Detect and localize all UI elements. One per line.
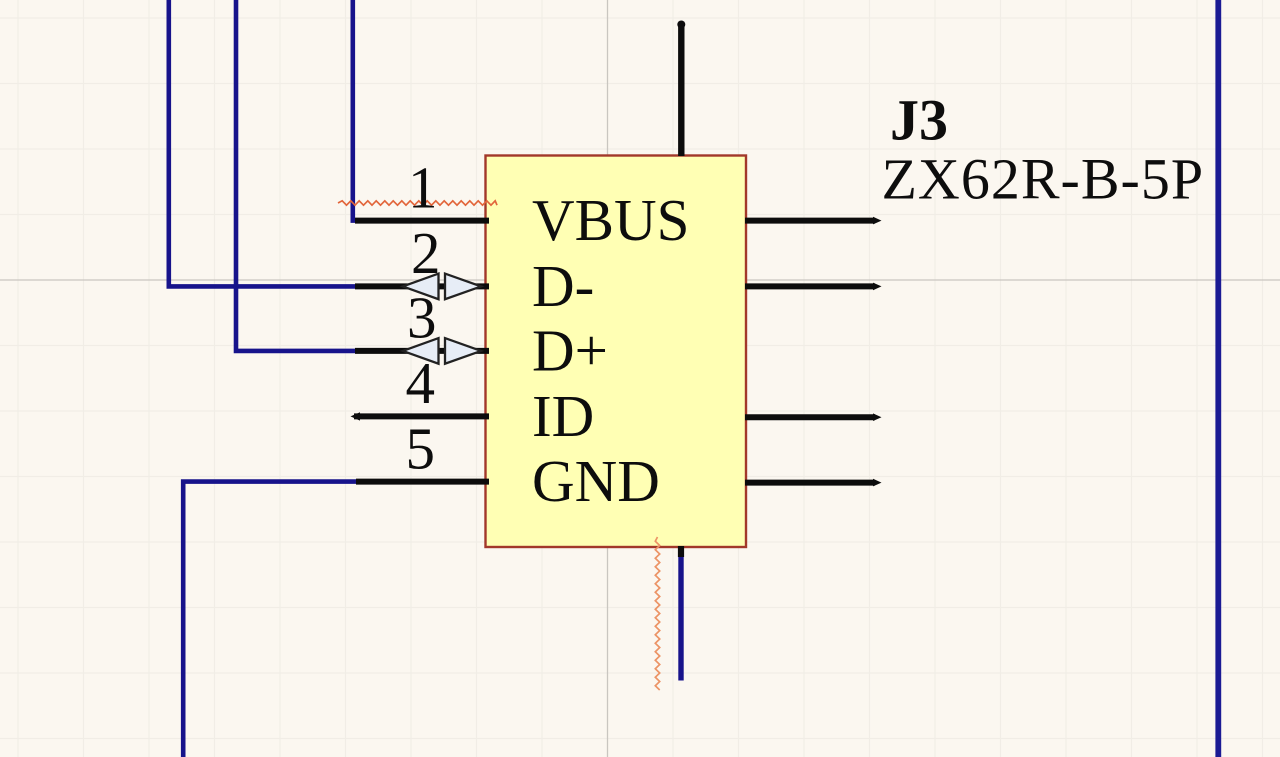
- vertical wire at right edge of sheet: [1215, 0, 1221, 757]
- svg-text:VBUS: VBUS: [532, 187, 689, 253]
- wire net to pin 1 (vertical from top): [353, 0, 358, 221]
- svg-text:ZX62R-B-5P: ZX62R-B-5P: [882, 147, 1205, 212]
- pin 2 left stub: [355, 283, 489, 289]
- compile-error squiggle on bottom pin: [655, 537, 659, 690]
- svg-text:5: 5: [406, 415, 436, 481]
- compile-error squiggle on pin 1: [338, 201, 497, 205]
- svg-text:ID: ID: [532, 383, 594, 449]
- right stub row 4 with arrow end: [745, 413, 882, 421]
- svg-text:GND: GND: [532, 448, 660, 514]
- svg-text:D+: D+: [532, 317, 608, 383]
- svg-text:D-: D-: [532, 253, 594, 319]
- connector J3 body: [486, 156, 747, 548]
- svg-text:3: 3: [407, 285, 437, 351]
- bidirectional arrow pair on pin 3: [403, 338, 481, 364]
- pin 1 left stub: [355, 218, 489, 224]
- svg-text:1: 1: [408, 154, 438, 220]
- wire below bottom pin: [678, 554, 683, 681]
- wire net to pin 2 (vertical + horizontal): [169, 0, 356, 286]
- wire net to pin 5 GND (horizontal + vertical to bottom): [183, 482, 357, 757]
- right stub row 5 with arrow end: [745, 479, 882, 487]
- pin 5 left stub: [356, 479, 489, 485]
- right stub row 1 with arrow end: [745, 217, 882, 225]
- svg-text:4: 4: [406, 350, 436, 416]
- wire net to pin 3 (vertical + horizontal): [236, 0, 356, 351]
- right stub row 2 with arrow end: [745, 283, 882, 291]
- svg-text:J3: J3: [890, 88, 948, 153]
- bottom pin of connector: [678, 546, 684, 557]
- bidirectional arrow pair on pin 2: [403, 274, 481, 300]
- top pin of connector: [677, 21, 685, 157]
- svg-text:2: 2: [411, 220, 441, 286]
- pin 3 left stub: [355, 348, 489, 354]
- pin 4 left stub with arrow end: [351, 412, 490, 420]
